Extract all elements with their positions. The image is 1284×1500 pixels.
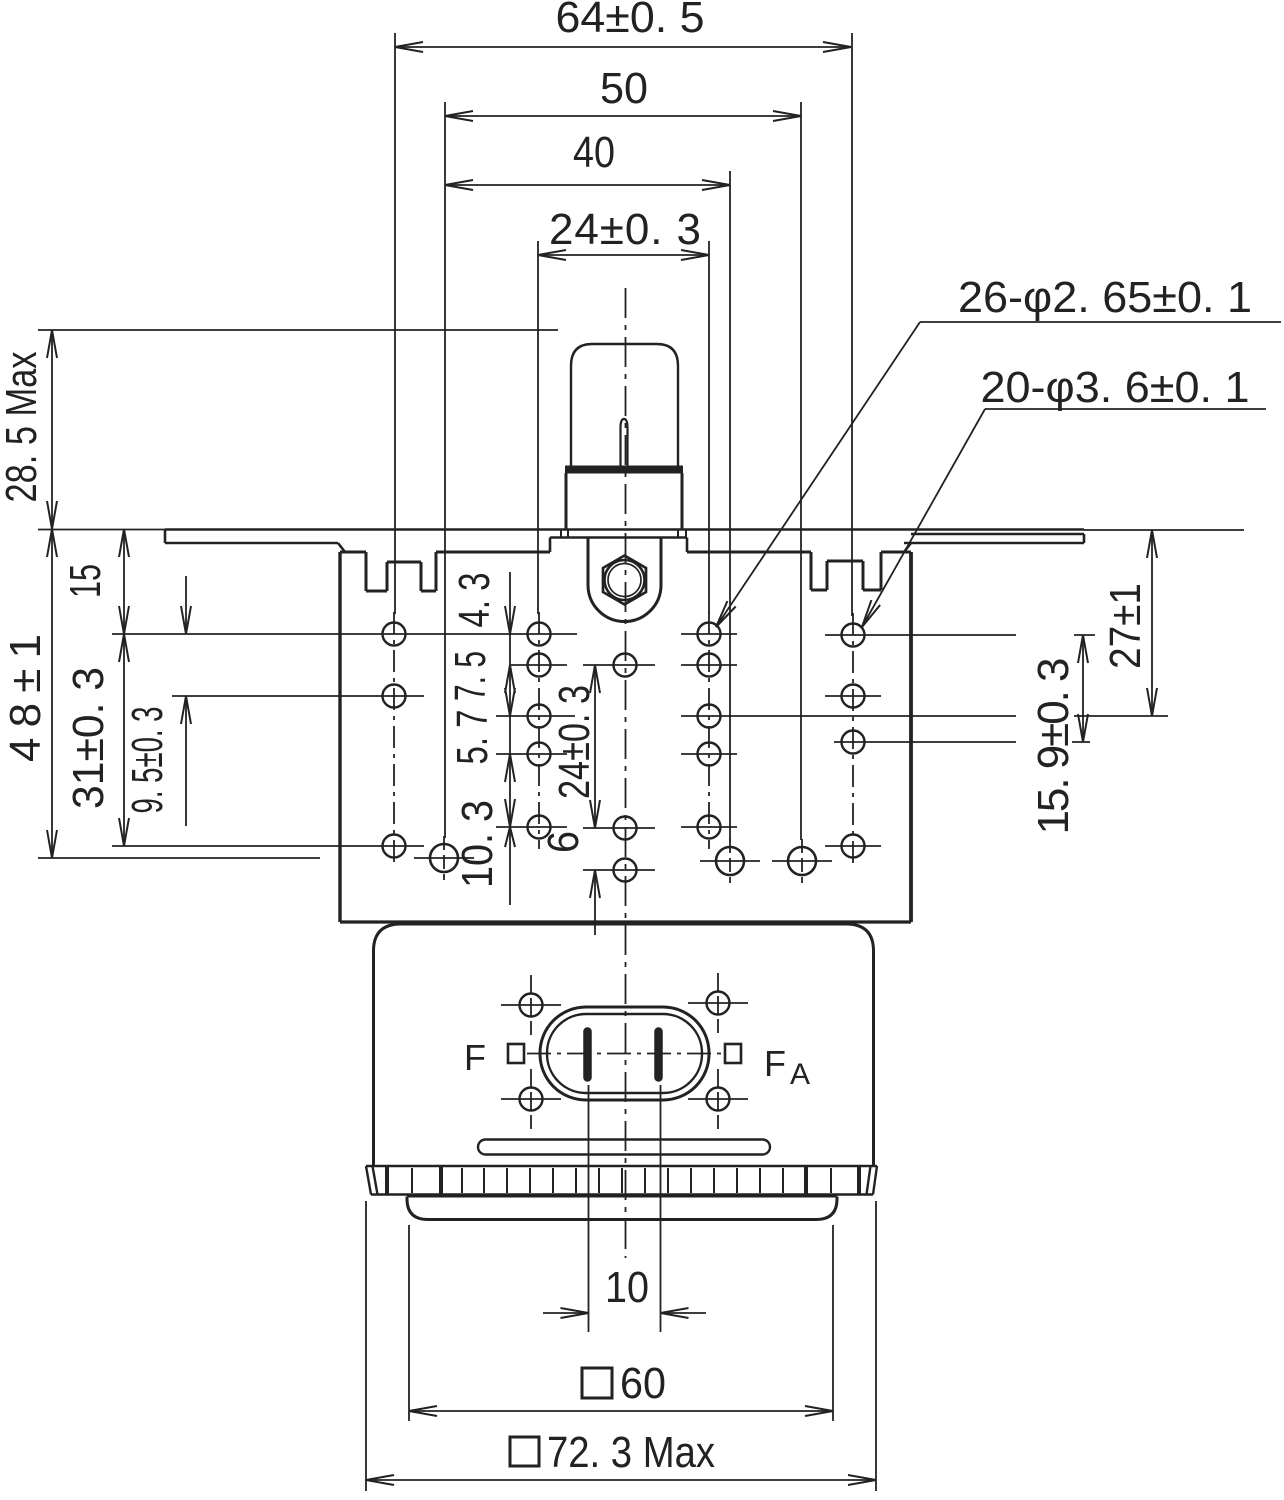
connector pin slot left — [584, 1028, 591, 1081]
hole row line y846 — [112, 845, 424, 847]
svg-text:10. 3: 10. 3 — [453, 800, 502, 888]
fins band outline — [366, 1165, 877, 1167]
body top edge segments — [340, 551, 366, 554]
extension line 64 left — [394, 33, 396, 614]
dimension 28.5 line — [51, 330, 53, 529]
dimension 27 line — [1151, 530, 1153, 716]
svg-text:20-φ3. 6±0. 1: 20-φ3. 6±0. 1 — [981, 363, 1250, 412]
svg-text:A: A — [790, 1058, 810, 1091]
dimension 24±0.3 middle text backing — [554, 682, 596, 804]
svg-text:F: F — [464, 1037, 486, 1078]
svg-text:31±0. 3: 31±0. 3 — [64, 667, 113, 809]
big hole ticks — [414, 857, 474, 859]
small holes left column — [383, 623, 406, 646]
witness line plate level right — [1084, 529, 1244, 531]
witness line 27 bottom — [1072, 715, 1168, 717]
antenna dome — [571, 344, 678, 467]
connector inner oval — [547, 1014, 702, 1093]
dimension 24 middle line — [594, 665, 596, 828]
filter box outline — [374, 924, 874, 1166]
extension line 24 right — [708, 241, 710, 614]
svg-text:60: 60 — [620, 1359, 666, 1408]
dimension 72.3 line — [366, 1479, 876, 1481]
dimension 24±0.3 top line — [538, 254, 709, 256]
extension line 40 right — [729, 171, 731, 841]
dimension 72.3 extension lines — [365, 1201, 367, 1491]
column centerline x853 — [852, 613, 854, 868]
dimension 6 line — [594, 870, 596, 935]
dimension 48 line — [51, 529, 53, 858]
extension line 50 right — [800, 102, 802, 840]
dimension 15.9±0.3 text backing — [1030, 653, 1074, 839]
terminal square F — [508, 1044, 524, 1063]
small holes inner-left column — [528, 623, 551, 646]
hole row line y696 — [172, 695, 424, 697]
svg-text:40: 40 — [573, 128, 615, 177]
fin thick marks — [385, 1167, 389, 1194]
antenna cap thick band — [565, 466, 683, 474]
connector corner hole top-right — [707, 992, 730, 1015]
terminal square FA — [725, 1044, 741, 1063]
hole row line y716 — [496, 715, 575, 717]
svg-text:F: F — [764, 1043, 786, 1084]
bolt hole circle — [605, 560, 645, 600]
body raised center plateau — [550, 536, 687, 539]
hole row line y665 — [511, 664, 567, 666]
hole row line y870 — [583, 869, 655, 871]
svg-text:15: 15 — [61, 564, 110, 598]
svg-text:72. 3 Max: 72. 3 Max — [547, 1428, 715, 1477]
body top left notches — [365, 552, 368, 591]
hole row line y754 — [496, 753, 567, 755]
connector corner hole bottom-right — [707, 1088, 730, 1111]
svg-text:26-φ2. 65±0. 1: 26-φ2. 65±0. 1 — [958, 273, 1252, 322]
svg-text:7. 5: 7. 5 — [446, 651, 495, 701]
leader line 26-phi2.65 — [716, 322, 920, 627]
bottom cap top edge — [407, 1196, 837, 1198]
big mounting holes — [430, 844, 458, 872]
chain dimension line — [509, 572, 511, 905]
leader line 20-phi3.6 — [862, 409, 985, 627]
dimension 15.9 line — [1082, 635, 1084, 742]
witness line plate level left — [38, 529, 165, 531]
witness line 48 bottom — [38, 857, 320, 859]
column centerline x394 — [393, 612, 395, 868]
column centerline x709 — [708, 612, 710, 849]
bracket bell outline — [588, 538, 661, 622]
antenna pin — [621, 419, 628, 466]
connector outer oval — [540, 1007, 709, 1100]
svg-text:50: 50 — [600, 64, 648, 113]
dimension 15 line — [123, 529, 125, 634]
column centerline x539 — [538, 612, 540, 849]
hole row line y827 — [496, 826, 567, 828]
connector corner hole top-left — [520, 994, 543, 1017]
hex nut — [603, 556, 646, 605]
connector corner hole bottom-left — [520, 1088, 543, 1111]
dimension 64±0.5 line — [395, 46, 851, 48]
body bottom edge — [340, 920, 911, 923]
svg-text:15. 9±0. 3: 15. 9±0. 3 — [1029, 658, 1078, 835]
svg-text:28. 5 Max: 28. 5 Max — [0, 352, 46, 503]
svg-text:24±0. 3: 24±0. 3 — [550, 685, 599, 799]
mounting plate left part — [165, 542, 338, 545]
svg-text:9. 5±0. 3: 9. 5±0. 3 — [123, 707, 172, 814]
bottom cap outline — [407, 1197, 837, 1220]
mounting plate top surface line — [165, 528, 1084, 530]
svg-text:27±1: 27±1 — [1101, 583, 1150, 669]
mounting plate right part — [911, 533, 1084, 536]
vent slot — [478, 1140, 770, 1155]
dimension 9.5 lines — [185, 576, 187, 634]
small holes inner-right column — [698, 623, 721, 646]
extension line 24 left — [537, 241, 539, 614]
connector pin slot right — [655, 1028, 662, 1081]
dimension 60 text — [582, 1368, 612, 1398]
label 20-phi3.6 underline — [985, 408, 1266, 410]
dimension 60 line — [409, 1410, 833, 1412]
extension line 50/40 left — [444, 102, 446, 838]
extension line 64 right — [851, 33, 853, 616]
antenna cap feet — [561, 530, 568, 538]
body left edge — [338, 552, 341, 922]
svg-text:4. 3: 4. 3 — [450, 573, 499, 628]
svg-text:10: 10 — [605, 1263, 649, 1312]
dimension 31 line — [123, 634, 125, 846]
antenna cap body — [565, 473, 568, 529]
small holes right column — [842, 624, 865, 647]
svg-text:24±0. 3: 24±0. 3 — [549, 205, 701, 254]
dimension 72.3 text — [510, 1437, 539, 1466]
svg-text:5. 7: 5. 7 — [448, 710, 497, 765]
hole row line y634 — [112, 633, 577, 635]
small holes center column — [614, 654, 637, 677]
vertical centerline — [625, 288, 627, 1258]
big hole centerlines — [443, 836, 445, 880]
reference line antenna top — [38, 329, 558, 331]
dimension 50 line — [445, 115, 801, 117]
hole row line y742 — [834, 741, 1016, 743]
dimension 60 extension lines — [408, 1225, 410, 1421]
svg-text:64±0. 5: 64±0. 5 — [556, 0, 705, 42]
body right edge — [909, 552, 913, 922]
dimension 10 arrows — [543, 1312, 589, 1314]
dimension 10 extension lines — [588, 1085, 590, 1332]
label 26-phi2.65 underline — [920, 321, 1281, 323]
fin dividers — [411, 1168, 413, 1193]
dimension 40 line — [445, 184, 730, 186]
body top right notches — [810, 552, 813, 590]
connector horizontal centerline — [527, 1053, 723, 1055]
